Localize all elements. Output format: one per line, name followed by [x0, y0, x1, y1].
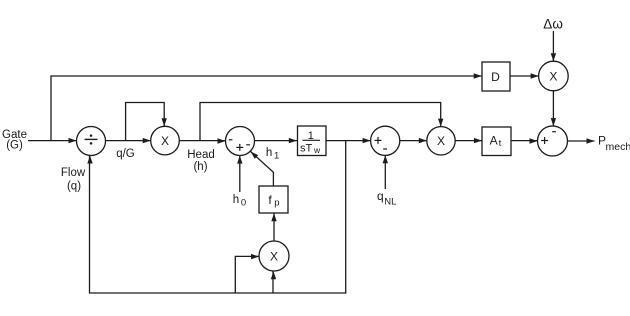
svg-text:h: h	[266, 147, 272, 159]
svg-text:A: A	[490, 134, 498, 148]
svg-text:h: h	[233, 194, 239, 206]
svg-text:X: X	[161, 134, 169, 148]
svg-text:Δω: Δω	[543, 17, 563, 32]
svg-text:q/G: q/G	[116, 148, 135, 160]
svg-text:Head: Head	[187, 149, 215, 161]
svg-text:mech: mech	[606, 141, 630, 153]
svg-text:p: p	[274, 198, 279, 209]
svg-text:(h): (h)	[193, 161, 207, 173]
svg-text:X: X	[437, 134, 445, 148]
svg-text:1: 1	[274, 150, 279, 161]
svg-text:q: q	[377, 189, 384, 203]
svg-text:t: t	[499, 138, 502, 149]
svg-text:w: w	[313, 145, 321, 155]
svg-text:D: D	[491, 70, 500, 84]
svg-text:X: X	[270, 249, 278, 263]
svg-text:0: 0	[241, 197, 246, 208]
svg-text:Flow: Flow	[61, 167, 86, 179]
svg-text:(G): (G)	[6, 140, 23, 152]
svg-text:X: X	[549, 69, 557, 83]
svg-text:(q): (q)	[67, 181, 81, 193]
svg-text:sT: sT	[300, 143, 313, 155]
svg-text:NL: NL	[384, 197, 396, 208]
